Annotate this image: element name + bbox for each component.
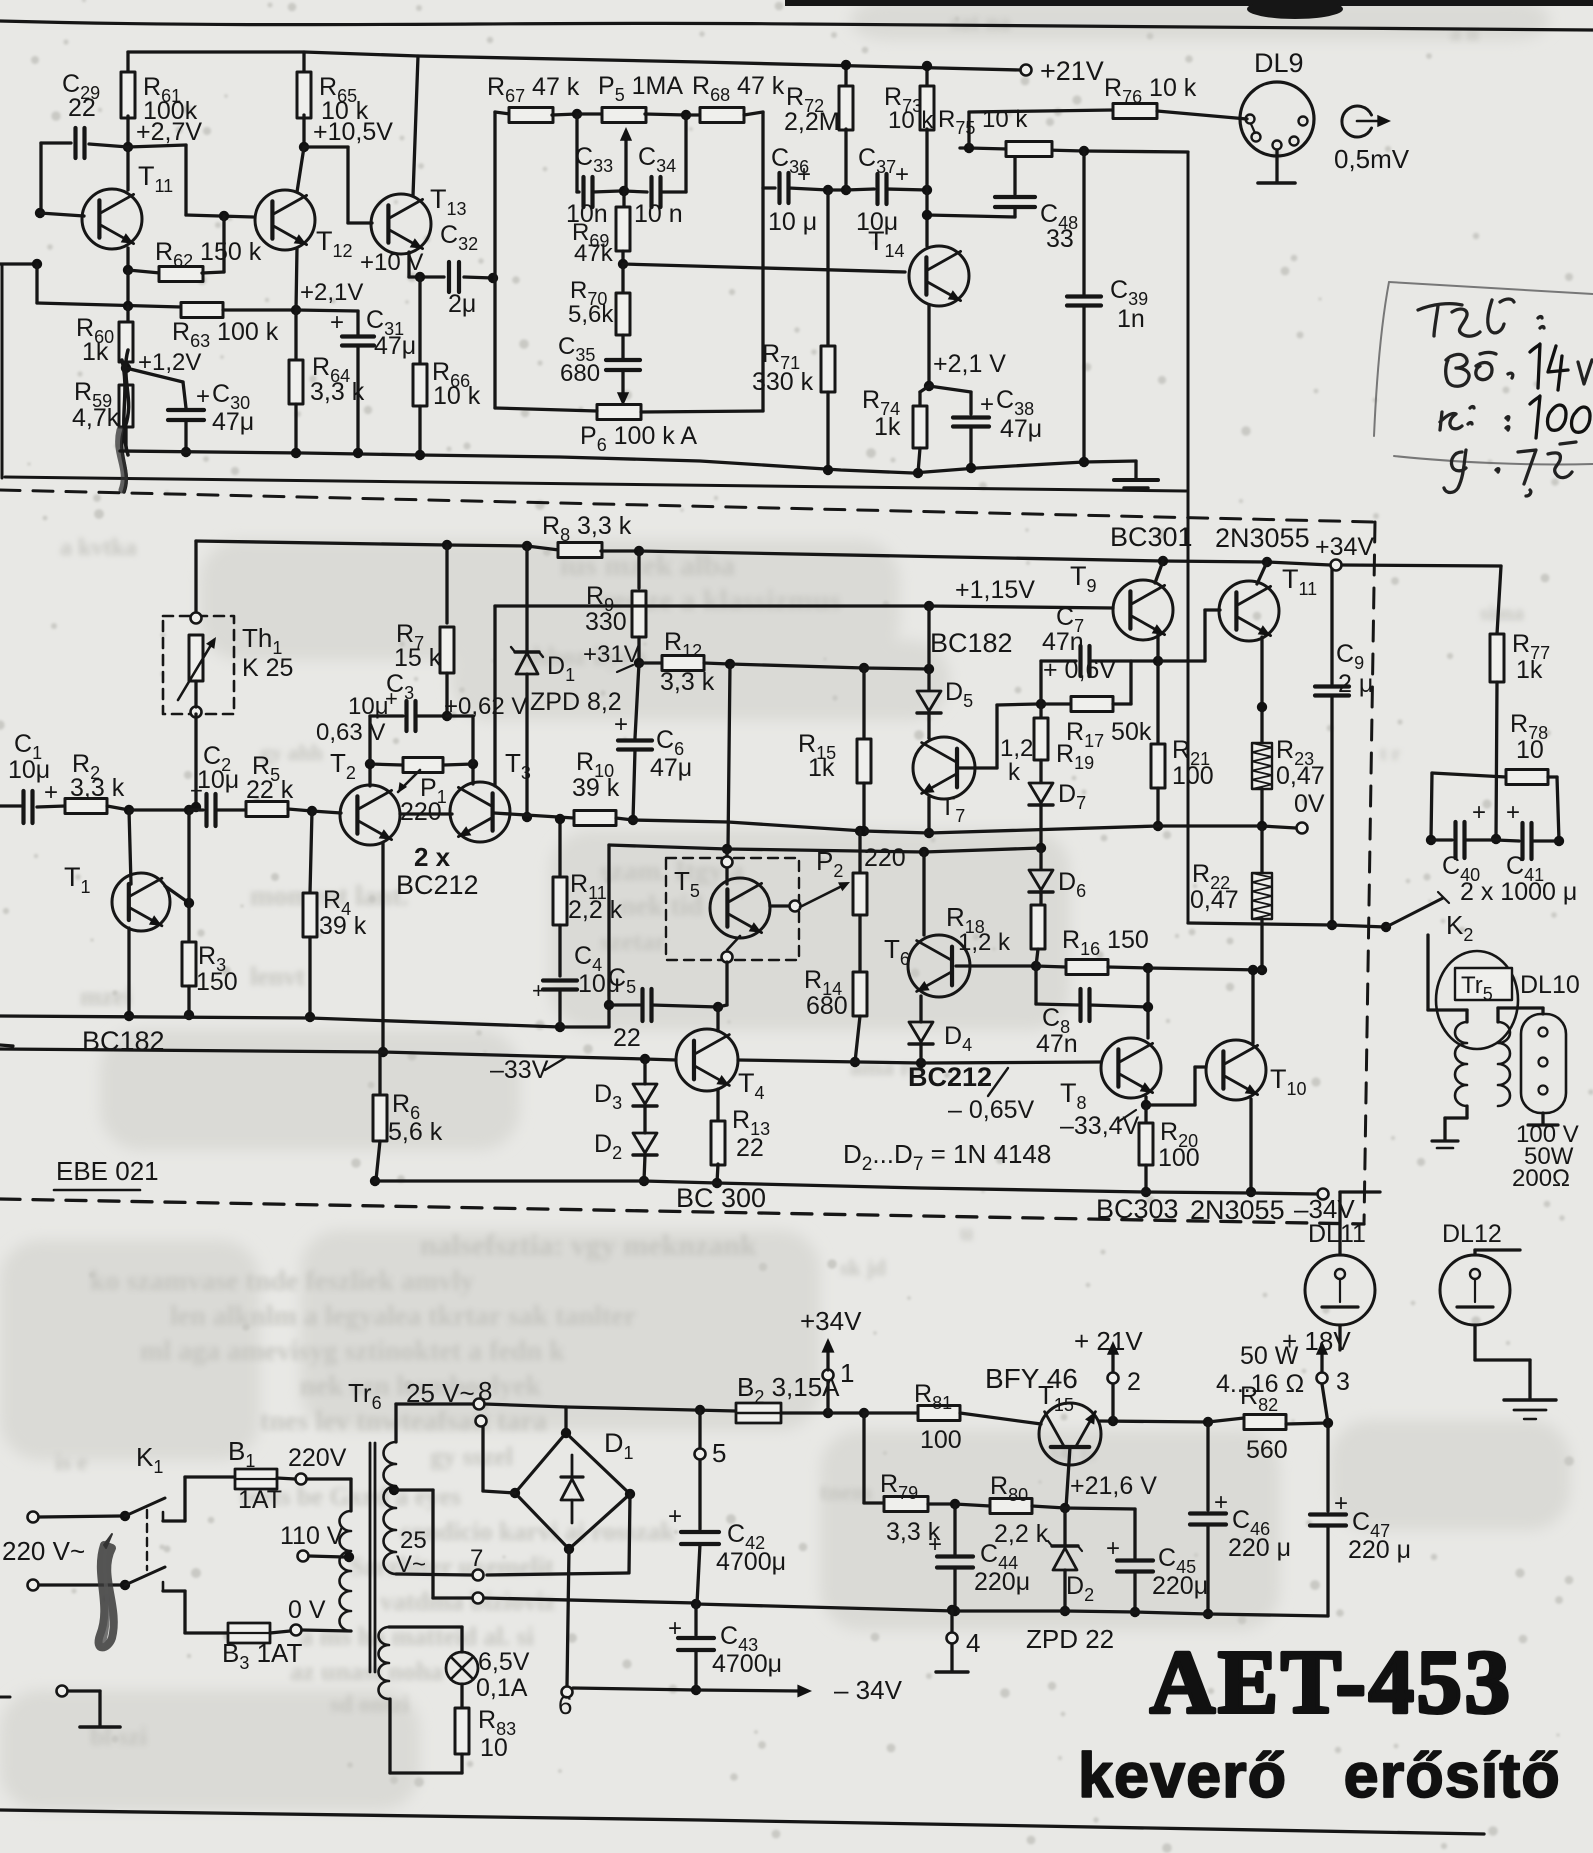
svg-text:220: 220 bbox=[864, 844, 906, 872]
svg-text:4700μ: 4700μ bbox=[712, 1650, 782, 1678]
svg-text:1,2: 1,2 bbox=[1000, 735, 1033, 762]
svg-text:330: 330 bbox=[585, 608, 627, 636]
svg-text:22: 22 bbox=[736, 1134, 764, 1162]
svg-text:6,5V: 6,5V bbox=[478, 1648, 530, 1676]
svg-text:len alknlm a legyalea tkrtar s: len alknlm a legyalea tkrtar sak tanlter bbox=[170, 1301, 636, 1332]
svg-text:47n: 47n bbox=[1042, 628, 1084, 656]
svg-text:1: 1 bbox=[840, 1358, 854, 1388]
svg-text:+: + bbox=[928, 1531, 942, 1558]
svg-text:+2,1 V: +2,1 V bbox=[933, 350, 1006, 378]
svg-text:+1,15V: +1,15V bbox=[955, 576, 1035, 604]
svg-text:gy sszel: gy sszel bbox=[430, 1442, 513, 1471]
svg-text:25 V~: 25 V~ bbox=[406, 1378, 475, 1408]
svg-text:BC 300: BC 300 bbox=[676, 1183, 766, 1213]
svg-text:33: 33 bbox=[1046, 225, 1074, 253]
svg-text:100: 100 bbox=[1172, 762, 1214, 790]
svg-text:BFY 46: BFY 46 bbox=[985, 1363, 1078, 1394]
svg-text:220: 220 bbox=[400, 798, 442, 826]
svg-text:Szrzhiter uxemelit: Szrzhiter uxemelit bbox=[350, 1552, 554, 1581]
svg-text:10μ: 10μ bbox=[348, 693, 389, 720]
svg-text:39 k: 39 k bbox=[319, 912, 367, 940]
svg-text:+2,1V: +2,1V bbox=[300, 279, 363, 306]
svg-text:2 μ: 2 μ bbox=[1338, 670, 1373, 698]
svg-text:22: 22 bbox=[68, 94, 96, 122]
svg-text:47μ: 47μ bbox=[212, 408, 254, 436]
svg-text:BC212: BC212 bbox=[396, 870, 479, 900]
svg-text:1k: 1k bbox=[82, 338, 109, 366]
svg-text:100: 100 bbox=[920, 1426, 962, 1454]
svg-text:0 V: 0 V bbox=[288, 1596, 326, 1624]
svg-text:+: + bbox=[668, 1615, 682, 1642]
svg-text:10 μ: 10 μ bbox=[768, 208, 817, 236]
svg-text:+: + bbox=[668, 1503, 682, 1530]
svg-text:+2,7V: +2,7V bbox=[136, 118, 202, 146]
svg-text:mzei: mzei bbox=[80, 982, 132, 1011]
svg-text:1,2 k: 1,2 k bbox=[958, 929, 1011, 956]
svg-text:2,2 k: 2,2 k bbox=[994, 1520, 1049, 1548]
svg-text:3,3 k: 3,3 k bbox=[660, 668, 715, 696]
svg-text:+: + bbox=[330, 309, 344, 336]
svg-text:3: 3 bbox=[1336, 1368, 1350, 1396]
svg-text:5,6 k: 5,6 k bbox=[388, 1118, 443, 1146]
svg-text:47k: 47k bbox=[574, 240, 614, 267]
svg-text:0,47: 0,47 bbox=[1276, 762, 1325, 790]
svg-text:keverő erősítő: keverő erősítő bbox=[1078, 1741, 1561, 1811]
svg-text:0,63 V: 0,63 V bbox=[316, 719, 385, 746]
svg-text:+: + bbox=[614, 711, 628, 738]
svg-text:2N3055: 2N3055 bbox=[1215, 523, 1310, 553]
svg-text:4: 4 bbox=[966, 1628, 980, 1658]
svg-text:B3 1AT: B3 1AT bbox=[222, 1638, 302, 1673]
svg-text:220μ: 220μ bbox=[974, 1568, 1030, 1596]
svg-text:– 34V: – 34V bbox=[834, 1675, 903, 1705]
svg-text:V~: V~ bbox=[396, 1551, 426, 1578]
svg-text:lenvt: lenvt bbox=[250, 962, 305, 991]
svg-text:+10,5V: +10,5V bbox=[313, 118, 393, 146]
svg-text:0,5mV: 0,5mV bbox=[1334, 144, 1410, 174]
svg-text:10 k: 10 k bbox=[433, 382, 481, 410]
svg-text:10 k: 10 k bbox=[888, 107, 934, 134]
svg-text:10μ: 10μ bbox=[8, 756, 50, 784]
svg-text:220V: 220V bbox=[288, 1444, 347, 1472]
svg-text:1k: 1k bbox=[808, 754, 835, 782]
svg-text:6: 6 bbox=[558, 1690, 572, 1720]
svg-text:7: 7 bbox=[470, 1545, 483, 1572]
svg-text:47n: 47n bbox=[1036, 1030, 1078, 1058]
svg-text:az unast noha: az unast noha bbox=[290, 1657, 443, 1686]
svg-text:22: 22 bbox=[613, 1024, 641, 1052]
svg-text:ZPD 8,2: ZPD 8,2 bbox=[530, 688, 622, 716]
svg-text:sk jd: sk jd bbox=[840, 1255, 886, 1280]
svg-text:+34V: +34V bbox=[800, 1306, 862, 1336]
svg-text:15 k: 15 k bbox=[394, 644, 442, 672]
svg-text:100: 100 bbox=[1158, 1144, 1200, 1172]
svg-text:+10 V: +10 V bbox=[360, 249, 423, 276]
svg-text:+: + bbox=[532, 978, 545, 1003]
svg-text:DL10: DL10 bbox=[1520, 971, 1580, 999]
svg-text:0V: 0V bbox=[1294, 790, 1325, 818]
svg-text:tnes lev tnwteafsatt tara: tnes lev tnwteafsatt tara bbox=[260, 1406, 547, 1437]
svg-text:47μ: 47μ bbox=[1000, 415, 1042, 443]
svg-text:2,2M: 2,2M bbox=[784, 108, 840, 136]
svg-text:680: 680 bbox=[560, 360, 600, 387]
svg-text:+21,6 V: +21,6 V bbox=[1070, 1472, 1157, 1500]
svg-text:EBE 021: EBE 021 bbox=[56, 1156, 159, 1186]
svg-text:150: 150 bbox=[196, 968, 238, 996]
svg-text:nalsefsztia: vgy meknzank: nalsefsztia: vgy meknzank bbox=[420, 1229, 757, 1262]
svg-text:a n: a n bbox=[1450, 20, 1479, 45]
svg-text:sima: sima bbox=[1480, 600, 1524, 625]
svg-text:4,7k: 4,7k bbox=[72, 404, 120, 432]
svg-text:sat na: sat na bbox=[950, 10, 1011, 36]
svg-text:220 V~: 220 V~ bbox=[2, 1536, 85, 1566]
svg-text:ko szamvase tnde feszliek amvl: ko szamvase tnde feszliek amvly bbox=[90, 1266, 474, 1297]
svg-text:K 25: K 25 bbox=[242, 654, 293, 682]
svg-text:+0,62 V: +0,62 V bbox=[444, 693, 527, 720]
svg-text:+ 18V: + 18V bbox=[1282, 1326, 1351, 1356]
svg-text:8: 8 bbox=[478, 1376, 492, 1406]
svg-text:u: u bbox=[960, 1220, 973, 1246]
svg-text:2: 2 bbox=[1127, 1368, 1141, 1396]
svg-text:2μ: 2μ bbox=[448, 290, 476, 318]
svg-text:+21V: +21V bbox=[1040, 56, 1104, 86]
svg-text:110 V: 110 V bbox=[280, 1522, 344, 1550]
svg-text:+: + bbox=[1506, 799, 1520, 826]
svg-text:2,2 k: 2,2 k bbox=[568, 896, 623, 924]
svg-text:condicio karvi ai rosszak: condicio karvi ai rosszak bbox=[400, 1517, 675, 1546]
svg-text:ml aga amevisyg sztinoktet a f: ml aga amevisyg sztinoktet a fedn k bbox=[140, 1336, 565, 1367]
svg-text:0,47: 0,47 bbox=[1190, 886, 1239, 914]
svg-text:220μ: 220μ bbox=[1152, 1572, 1208, 1600]
svg-text:330 k: 330 k bbox=[752, 368, 814, 396]
svg-text:2N3055: 2N3055 bbox=[1190, 1195, 1285, 1225]
svg-text:1k: 1k bbox=[874, 413, 901, 441]
svg-text:39 k: 39 k bbox=[572, 774, 620, 802]
svg-text:5: 5 bbox=[712, 1438, 726, 1468]
svg-text:4...16 Ω: 4...16 Ω bbox=[1216, 1370, 1304, 1398]
svg-text:+: + bbox=[1106, 1535, 1120, 1562]
svg-text:+ 0,6V: + 0,6V bbox=[1043, 656, 1116, 684]
svg-text:AET-453: AET-453 bbox=[1150, 1633, 1513, 1732]
svg-text:+34V: +34V bbox=[1315, 533, 1374, 561]
svg-text:5,6k: 5,6k bbox=[568, 301, 614, 328]
svg-text:25: 25 bbox=[400, 1527, 427, 1554]
svg-text:vatdma bizioviz: vatdma bizioviz bbox=[380, 1587, 556, 1616]
svg-text:BC303: BC303 bbox=[1096, 1194, 1179, 1224]
svg-text:1k: 1k bbox=[1516, 656, 1543, 684]
svg-text:+: + bbox=[980, 391, 994, 418]
svg-text:+: + bbox=[1334, 1490, 1348, 1517]
svg-text:1AT: 1AT bbox=[238, 1486, 282, 1514]
svg-text:+: + bbox=[895, 161, 909, 188]
svg-text:+ 21V: + 21V bbox=[1074, 1326, 1143, 1356]
svg-text:– 0,65V: – 0,65V bbox=[948, 1096, 1035, 1124]
svg-text:DL12: DL12 bbox=[1442, 1220, 1502, 1248]
svg-text:BC212: BC212 bbox=[908, 1062, 992, 1092]
svg-text:220 μ: 220 μ bbox=[1228, 1534, 1291, 1562]
svg-text:DL11: DL11 bbox=[1308, 1220, 1366, 1248]
svg-text:+31V: +31V bbox=[583, 641, 640, 668]
svg-text:BC182: BC182 bbox=[930, 628, 1013, 658]
svg-text:+: + bbox=[1472, 799, 1486, 826]
svg-text:0,1A: 0,1A bbox=[476, 1674, 528, 1702]
svg-text:is e: is e bbox=[55, 1450, 88, 1476]
svg-text:4700μ: 4700μ bbox=[716, 1548, 786, 1576]
svg-text:22 k: 22 k bbox=[246, 776, 294, 804]
svg-text:ZPD 22: ZPD 22 bbox=[1026, 1624, 1114, 1654]
svg-text:560: 560 bbox=[1246, 1436, 1288, 1464]
svg-text:sd ontzi: sd ontzi bbox=[330, 1692, 410, 1718]
svg-text:1n: 1n bbox=[1117, 305, 1145, 333]
svg-text:47μ: 47μ bbox=[650, 754, 692, 782]
svg-text:k: k bbox=[1008, 759, 1021, 786]
svg-text:2 x: 2 x bbox=[414, 842, 451, 872]
svg-text:+: + bbox=[1214, 1489, 1228, 1516]
svg-text:680: 680 bbox=[806, 992, 848, 1020]
svg-text:+: + bbox=[196, 383, 210, 410]
svg-text:–33V: –33V bbox=[490, 1056, 549, 1084]
svg-text:10: 10 bbox=[480, 1734, 508, 1762]
svg-text:10 n: 10 n bbox=[634, 200, 683, 228]
svg-text:a kvtka: a kvtka bbox=[60, 535, 137, 561]
svg-text:3,3 k: 3,3 k bbox=[70, 774, 125, 802]
svg-text:220 μ: 220 μ bbox=[1348, 1536, 1411, 1564]
svg-text:t r: t r bbox=[1380, 743, 1401, 765]
svg-text:2 x 1000 μ: 2 x 1000 μ bbox=[1460, 878, 1577, 906]
svg-text:+1,2V: +1,2V bbox=[138, 349, 201, 376]
svg-text:BC301: BC301 bbox=[1110, 522, 1193, 552]
svg-text:10: 10 bbox=[1516, 736, 1544, 764]
svg-text:DL9: DL9 bbox=[1254, 48, 1304, 78]
svg-text:10μ: 10μ bbox=[197, 766, 239, 794]
svg-text:47μ: 47μ bbox=[374, 332, 416, 360]
svg-text:200Ω: 200Ω bbox=[1512, 1165, 1570, 1192]
